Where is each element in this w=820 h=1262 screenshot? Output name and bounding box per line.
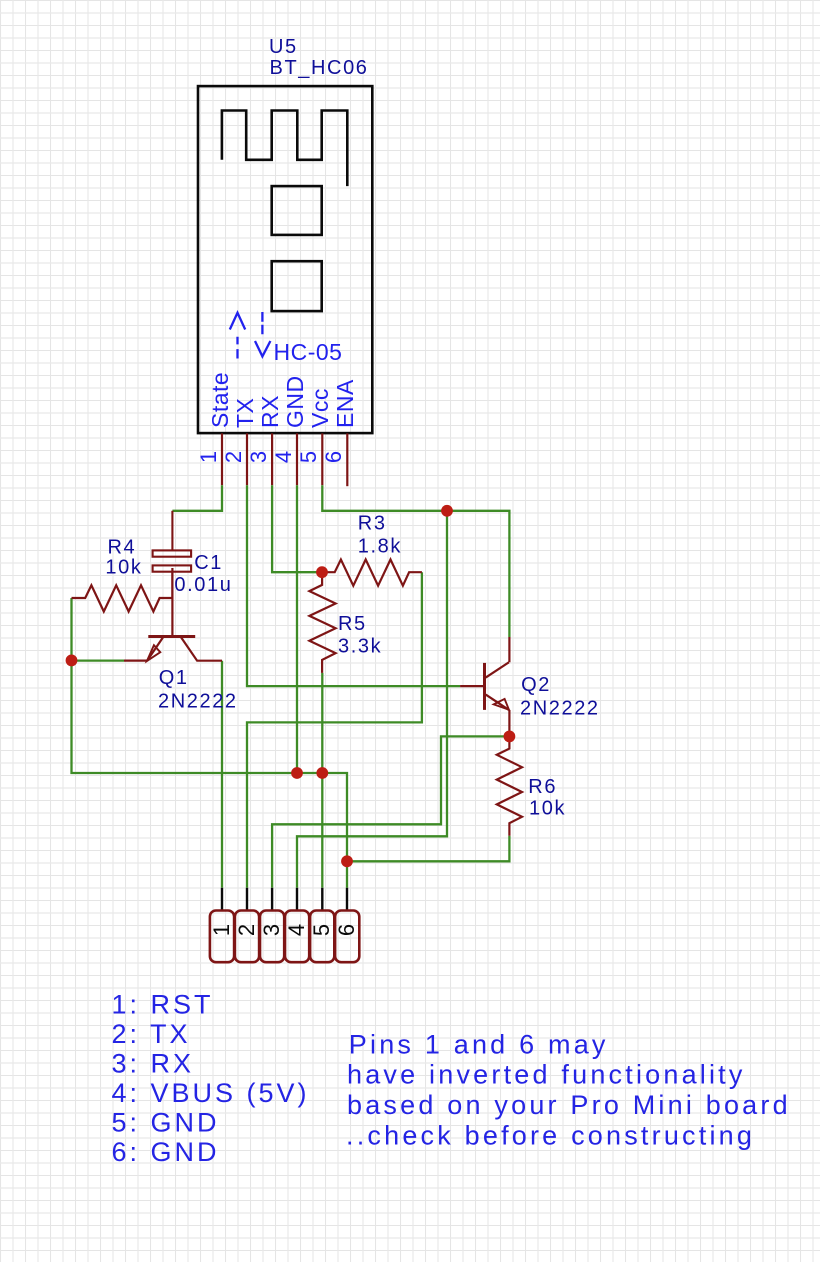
U5 dashed up arrow [230, 312, 271, 359]
svg-text:6: 6 [334, 924, 359, 936]
svg-text:0.01u: 0.01u [174, 574, 232, 596]
connector pin 4 lead [296, 888, 298, 911]
svg-text:Q2: Q2 [521, 674, 551, 696]
svg-text:RX: RX [257, 395, 283, 428]
Q2 collector diagonal [486, 662, 509, 677]
svg-text:2: 2 [221, 451, 246, 463]
C1 bottom plate [153, 565, 192, 571]
U5 square pad 1 [272, 186, 322, 235]
Q1 collector lead [181, 638, 222, 661]
svg-text:BT_HC06: BT_HC06 [270, 57, 369, 79]
wire ground row down to connector pin6 [346, 861, 348, 888]
resistor R6 [497, 736, 522, 835]
connector pad 4 [285, 911, 309, 963]
C1 top lead [171, 511, 173, 551]
wire R3 right end down and left to connector pin2 [247, 572, 422, 888]
wire Q1 collector down to connector pin1 [221, 661, 223, 888]
svg-text:1.8k: 1.8k [358, 535, 402, 557]
svg-text:State: State [207, 372, 233, 428]
U5 dashed down arrow [261, 312, 263, 334]
svg-text:2: 2 [234, 924, 259, 936]
svg-text:..check before constructing: ..check before constructing [346, 1121, 755, 1151]
wire R5 bottom to rail and connector pin5 [321, 673, 323, 888]
svg-text:HC-05: HC-05 [274, 339, 343, 365]
node dot ground row/pin6 [341, 855, 353, 867]
wire U5.1 State to C1 [172, 485, 222, 511]
C1 top plate [153, 550, 192, 556]
svg-text:3: 3 [259, 924, 284, 936]
note paragraph [346, 1029, 791, 1150]
connector pin 5 lead [321, 888, 323, 911]
svg-text:C1: C1 [194, 552, 223, 574]
Q1 emitter lead [124, 659, 147, 661]
svg-text:R5: R5 [338, 613, 367, 635]
node dot rail/R5 bottom [316, 767, 328, 779]
wire U5.4 GND down to ground rail [296, 485, 298, 773]
transistor Q1 2N2222 [124, 568, 222, 661]
U5 pin 2 stub (TX) [246, 433, 248, 485]
connector pin 1 lead [221, 888, 223, 911]
node dot rail/U5 GND [291, 767, 303, 779]
connector pin 6 lead [346, 888, 348, 911]
svg-text:2: TX: 2: TX [112, 1019, 191, 1049]
Q2 base lead [460, 685, 483, 687]
wire connector pin3 to Q2 emitter [272, 736, 509, 887]
svg-text:Vcc: Vcc [307, 388, 333, 428]
C1 bottom lead to Q1 base node [171, 572, 173, 598]
U5 pin 5 stub (Vcc) [321, 433, 323, 485]
Q2 base bar [483, 663, 486, 710]
connector pad 5 [310, 911, 334, 963]
wire connector pin4 VBUS up to Vcc node [297, 511, 447, 888]
connector pad 3 [260, 911, 284, 963]
svg-text:R3: R3 [358, 513, 387, 535]
wire ground rail from R4 left down and across to pin6 column [72, 598, 348, 861]
Q1 base lead [171, 568, 173, 635]
Q2 emitter diagonal [486, 695, 509, 710]
svg-text:1: 1 [196, 451, 221, 463]
svg-text:have inverted functionality: have inverted functionality [347, 1060, 746, 1090]
svg-text:Q1: Q1 [159, 667, 189, 689]
U5 antenna meander [222, 111, 347, 187]
resistor R3 [322, 560, 422, 586]
svg-text:4: VBUS (5V): 4: VBUS (5V) [112, 1078, 310, 1108]
Q1 emitter arrow [147, 645, 160, 661]
svg-text:Pins 1 and 6 may: Pins 1 and 6 may [349, 1029, 609, 1059]
U5 pin 4 stub (GND) [296, 433, 298, 485]
svg-text:1: 1 [209, 924, 234, 936]
node dot Q1 emitter/ground [66, 655, 78, 667]
svg-text:6: GND: 6: GND [112, 1137, 220, 1167]
U5 pin 6 stub (ENA) [346, 433, 348, 486]
node dot Q2 emitter/R6 [504, 731, 516, 743]
wire U5.5 Vcc to Q2 collector [322, 485, 509, 637]
resistor R4 [72, 585, 173, 611]
svg-text:3: 3 [246, 451, 271, 463]
U5 square pad 2 [272, 261, 322, 311]
Q2 emitter arrow [494, 699, 509, 710]
svg-text:ENA: ENA [332, 379, 358, 428]
connector pad 6 [335, 911, 359, 963]
wire U5.2 TX to Q2 base [247, 485, 460, 686]
svg-text:3: RX: 3: RX [112, 1049, 195, 1079]
transistor Q2 2N2222 [460, 637, 509, 736]
Q2 emitter lead [508, 710, 510, 737]
svg-text:10k: 10k [529, 798, 566, 820]
U5 pin 3 stub (RX) [271, 433, 273, 485]
capacitor C1 [153, 511, 192, 598]
U5 body outline [198, 86, 372, 433]
connector pin 2 lead [246, 888, 248, 911]
Q1 emitter diagonal [147, 638, 163, 661]
resistor R5 [309, 572, 335, 673]
svg-text:4: 4 [271, 451, 296, 463]
svg-text:R6: R6 [528, 776, 557, 798]
svg-text:4: 4 [284, 924, 309, 936]
svg-text:U5: U5 [269, 36, 298, 58]
svg-text:GND: GND [282, 375, 308, 428]
svg-text:TX: TX [232, 398, 258, 428]
connector pad 2 [235, 911, 259, 963]
svg-text:10k: 10k [105, 557, 142, 579]
svg-text:2N2222: 2N2222 [520, 698, 600, 720]
svg-text:based on your Pro Mini board: based on your Pro Mini board [347, 1090, 791, 1120]
Q2 collector lead [508, 637, 510, 662]
svg-text:5: 5 [309, 924, 334, 936]
wire R6 bottom to ground row [347, 836, 509, 862]
svg-text:R4: R4 [108, 537, 137, 559]
node dot RX/R3/R5 [316, 566, 328, 578]
wire Q1 emitter to rail [72, 659, 125, 661]
svg-text:6: 6 [321, 451, 346, 463]
svg-text:5: 5 [296, 451, 321, 463]
Q1 base bar [148, 635, 195, 638]
svg-text:3.3k: 3.3k [338, 635, 382, 657]
wire U5.3 RX to R3/R5 node [272, 485, 320, 572]
connector pad 1 [210, 911, 234, 963]
svg-text:2N2222: 2N2222 [158, 691, 238, 713]
svg-text:1: RST: 1: RST [112, 989, 214, 1019]
connector pin 3 lead [271, 888, 273, 911]
svg-text:5: GND: 5: GND [112, 1108, 220, 1138]
node dot Vcc branch [441, 505, 453, 517]
U5 pin 1 stub (State) [221, 433, 223, 485]
